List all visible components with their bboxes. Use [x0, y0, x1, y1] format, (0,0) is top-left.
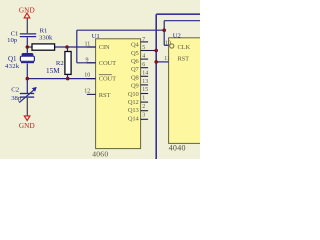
svg-text:C2: C2: [11, 86, 19, 93]
svg-text:6: 6: [142, 62, 145, 68]
svg-text:4060: 4060: [92, 150, 108, 159]
svg-text:10: 10: [84, 73, 90, 79]
svg-text:GND: GND: [19, 122, 35, 130]
svg-text:15M: 15M: [46, 67, 60, 75]
svg-text:15: 15: [142, 87, 148, 93]
svg-text:12: 12: [84, 89, 90, 95]
svg-text:11: 11: [164, 56, 170, 62]
svg-text:13: 13: [142, 79, 148, 85]
svg-text:Q14: Q14: [128, 115, 140, 122]
svg-text:Q10: Q10: [128, 91, 139, 98]
svg-text:U2: U2: [173, 32, 181, 39]
svg-text:Q13: Q13: [128, 107, 139, 114]
svg-text:38p: 38p: [11, 95, 22, 102]
svg-text:U1: U1: [92, 33, 100, 40]
svg-text:10: 10: [165, 41, 171, 47]
svg-text:10p: 10p: [7, 37, 18, 44]
svg-text:Q5: Q5: [131, 50, 139, 57]
svg-text:Q4: Q4: [131, 42, 140, 49]
svg-text:Q8: Q8: [131, 74, 139, 81]
svg-text:3: 3: [142, 112, 145, 118]
svg-text:RST: RST: [99, 92, 111, 99]
svg-text:9: 9: [86, 58, 89, 64]
svg-text:Q12: Q12: [128, 99, 139, 106]
svg-text:1: 1: [142, 96, 145, 102]
svg-text:CIN: CIN: [99, 44, 110, 51]
svg-text:4: 4: [142, 54, 145, 60]
svg-text:Q6: Q6: [131, 58, 140, 65]
svg-text:CLK: CLK: [178, 44, 191, 51]
svg-text:432k: 432k: [5, 63, 20, 70]
svg-text:COUT: COUT: [99, 60, 116, 67]
svg-text:14: 14: [142, 70, 148, 76]
svg-text:Q1: Q1: [8, 55, 17, 63]
svg-text:2: 2: [142, 104, 145, 110]
svg-text:Q7: Q7: [131, 66, 140, 73]
svg-text:7: 7: [142, 37, 145, 43]
svg-text:R2: R2: [56, 60, 64, 67]
svg-text:330k: 330k: [39, 34, 53, 41]
svg-text:4040: 4040: [169, 144, 186, 153]
svg-text:Q9: Q9: [131, 83, 139, 90]
svg-text:11: 11: [85, 42, 91, 48]
svg-text:COUT: COUT: [99, 75, 116, 82]
svg-text:R1: R1: [40, 27, 48, 34]
svg-text:GND: GND: [19, 6, 35, 14]
svg-text:5: 5: [142, 45, 145, 51]
svg-text:RST: RST: [178, 56, 190, 63]
